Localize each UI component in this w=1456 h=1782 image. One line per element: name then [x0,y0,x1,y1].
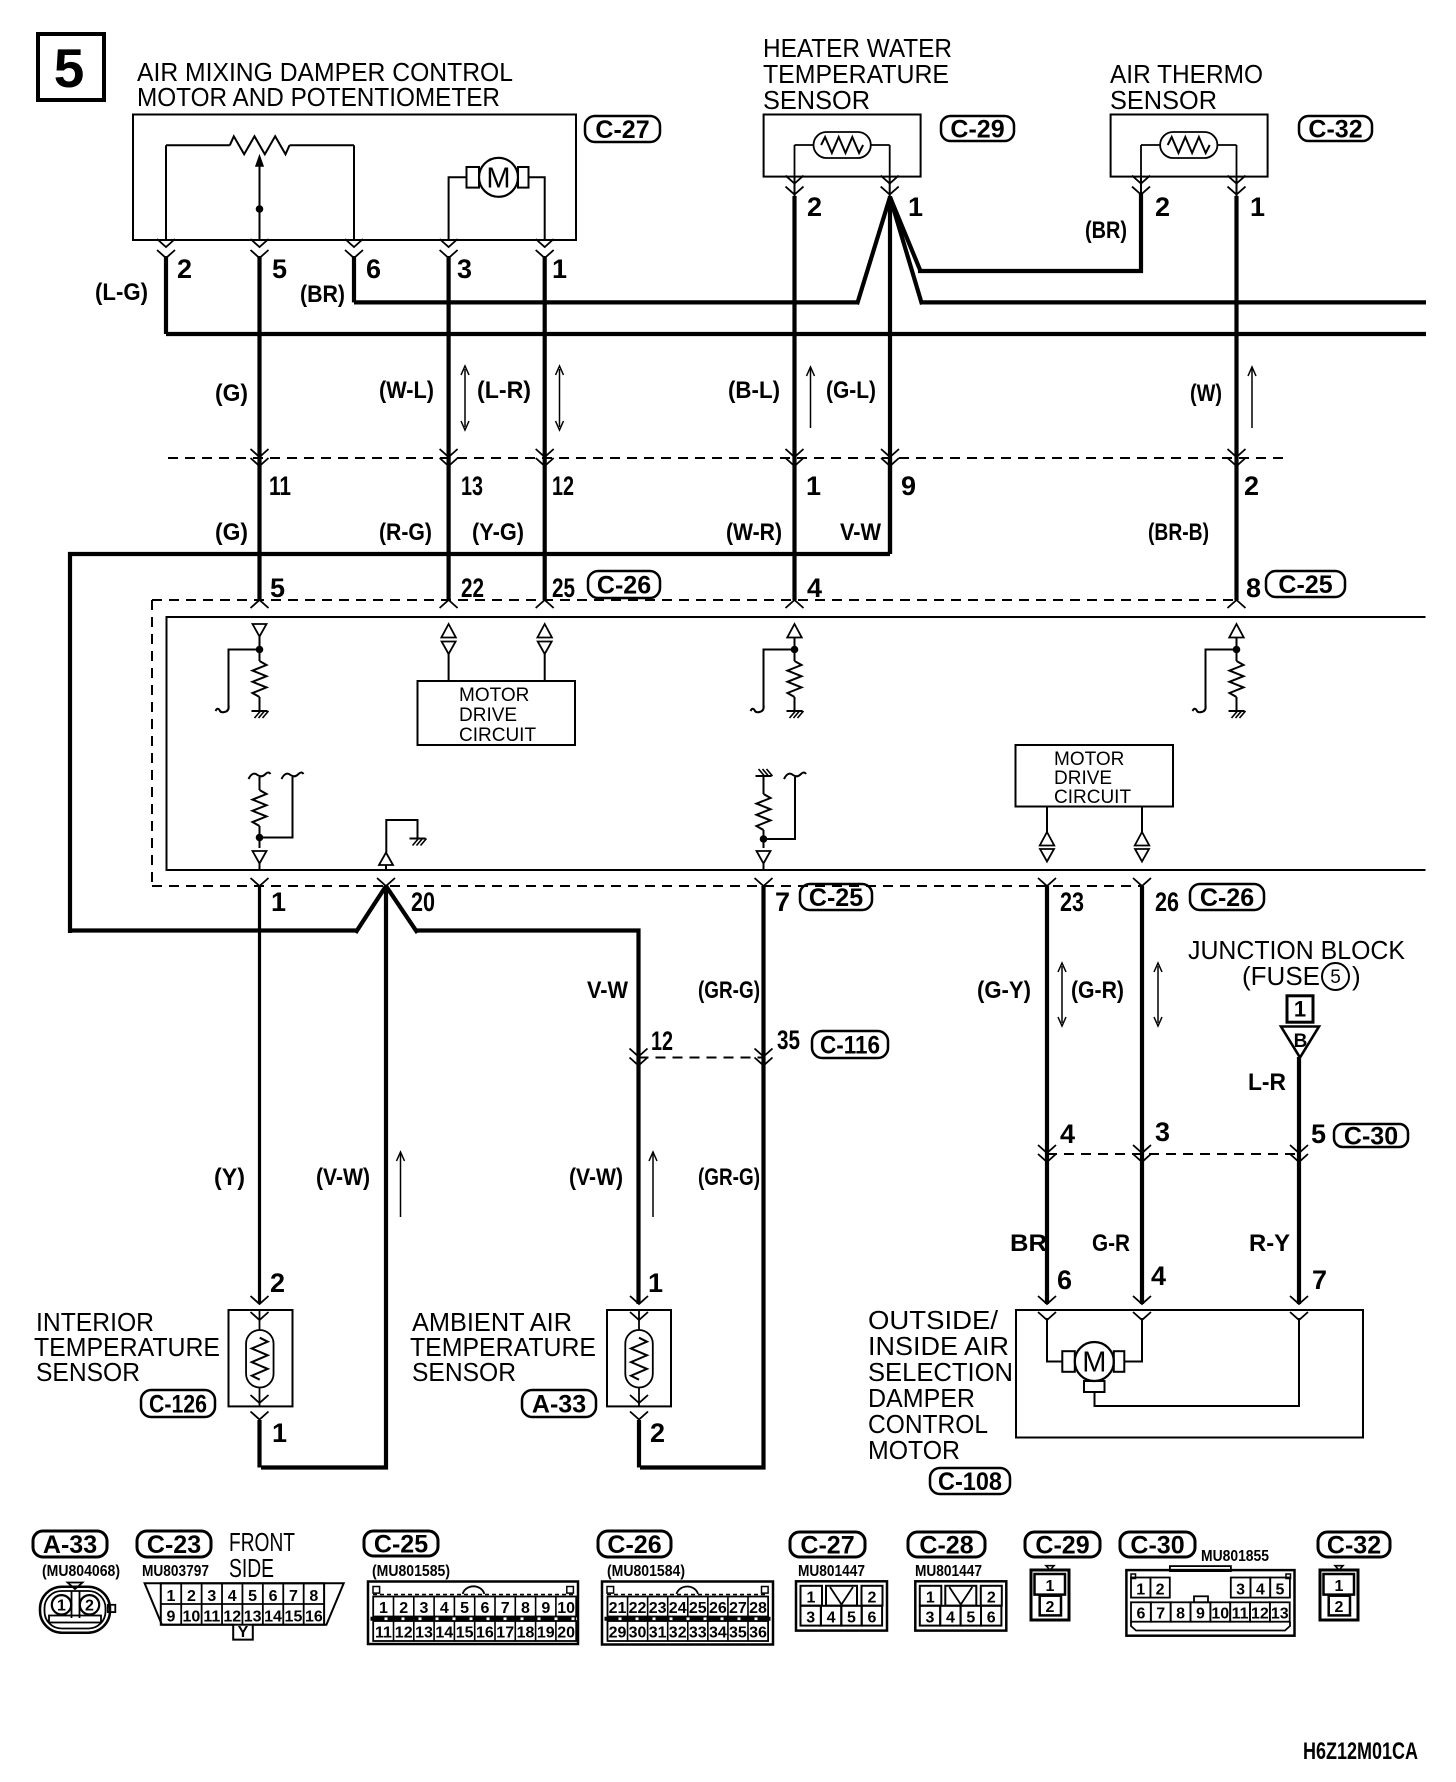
connector drawing C-32 [1335,1566,1343,1570]
svg-text:2: 2 [399,1600,408,1617]
ECU pin20 output triangle [379,853,393,866]
svg-text:(G): (G) [215,519,248,546]
signal arrow near W-L [464,369,466,427]
svg-text:7: 7 [289,1588,298,1605]
svg-text:3: 3 [420,1600,429,1617]
svg-text:CIRCUIT: CIRCUIT [1054,787,1131,808]
ECU pin1 output network hooks [249,773,271,780]
in-line pin 12 C-116 [630,1049,648,1057]
connector drawing C-25 [368,1582,578,1645]
wire damper motor pin7 lead [1095,1318,1300,1406]
connector label C-25 bottom row [364,1531,438,1556]
wire bus3 to left riser [70,554,890,933]
ECU pin25 triangles [537,624,552,638]
svg-text:4: 4 [946,1610,955,1627]
svg-text:(V-W): (V-W) [316,1164,370,1191]
svg-text:C-29: C-29 [1035,1532,1089,1560]
svg-text:MOTOR AND POTENTIOMETER: MOTOR AND POTENTIOMETER [137,82,500,112]
svg-text:31: 31 [649,1625,667,1642]
svg-text:22: 22 [629,1600,647,1617]
svg-text:7: 7 [1312,1265,1327,1295]
svg-text:20: 20 [557,1625,575,1642]
in-line pin 9 [881,449,899,457]
svg-text:1: 1 [648,1268,663,1298]
svg-text:13: 13 [461,471,483,501]
connector label C-25 bottom [800,884,872,910]
svg-text:1: 1 [552,254,567,284]
ECU pin22 triangles [441,624,456,638]
svg-text:1: 1 [908,192,923,222]
svg-text:(W-R): (W-R) [726,519,782,546]
component box heater water temperature sensor [764,115,921,177]
ECU pin23 triangles [1046,807,1048,833]
svg-text:8: 8 [521,1600,530,1617]
connector drawing C-26 [602,1582,773,1645]
wire diagonal bus1 up to heater pin 1 [857,197,890,304]
svg-text:22: 22 [461,573,484,603]
svg-text:26: 26 [709,1600,727,1617]
wire damper motor pin6 lead [1047,1318,1062,1362]
ECU pin5 pull resistor network [259,637,261,647]
svg-text:11: 11 [269,471,291,501]
svg-text:19: 19 [537,1625,555,1642]
svg-text:7: 7 [501,1600,510,1617]
ground ECU pin5 network [252,710,268,712]
signal arrow center V-W [400,1154,402,1217]
ECU dashed boundary bottom [152,885,1142,887]
connector label C-126 [141,1390,215,1417]
svg-text:6: 6 [1136,1606,1145,1623]
ECU terminal feathers top [251,600,269,608]
svg-text:4: 4 [228,1588,237,1605]
svg-text:(MU801585): (MU801585) [372,1563,450,1580]
connector label C-28 bottom row [908,1532,985,1557]
ambient sensor pin 2 feathers [630,1395,648,1403]
connector label C-27 bottom row [790,1532,865,1557]
svg-text:32: 32 [669,1625,687,1642]
in-line connector C-116 dashed line [639,1057,764,1059]
thermistor air thermo sensor [1160,132,1217,158]
pin 5 of C-27 [251,239,269,247]
motor M outside/inside damper [1075,1342,1114,1381]
svg-text:(BR-B): (BR-B) [1148,519,1209,546]
svg-text:2: 2 [1156,1582,1165,1599]
svg-text:(G): (G) [215,380,248,407]
connector drawing C-23 [145,1583,344,1639]
svg-text:2: 2 [177,254,192,284]
interior sensor pin 2 feathers [251,1296,269,1304]
svg-text:1: 1 [272,1418,287,1448]
svg-text:24: 24 [669,1600,687,1617]
svg-text:C-27: C-27 [800,1532,854,1560]
svg-text:5: 5 [966,1610,975,1627]
connector label C-26 top [588,571,660,598]
svg-text:SIDE: SIDE [229,1553,274,1583]
svg-text:(MU804068): (MU804068) [42,1563,120,1580]
svg-text:1: 1 [379,1600,388,1617]
wire pin5 G down to ECU [257,256,261,600]
connector drawing C-27 [796,1581,887,1630]
wire heater pin2 B-L down to ECU [792,196,796,600]
svg-text:5: 5 [1311,1119,1326,1149]
wire ECU pin23 G-Y down to damper motor [1045,886,1049,1304]
svg-text:(G-L): (G-L) [826,377,876,404]
svg-text:(GR-G): (GR-G) [698,977,760,1004]
svg-text:(R-G): (R-G) [379,519,432,546]
svg-text:23: 23 [1060,887,1084,917]
svg-text:2: 2 [1046,1599,1055,1616]
component box air thermo sensor [1111,115,1268,177]
svg-text:36: 36 [749,1625,767,1642]
svg-text:(MU801584): (MU801584) [607,1563,685,1580]
svg-text:C-32: C-32 [1308,116,1362,144]
signal arrow near G-L [810,369,812,428]
svg-text:C-26: C-26 [597,572,651,600]
svg-text:6: 6 [867,1610,876,1627]
connector label C-116 [812,1031,888,1058]
svg-text:17: 17 [496,1625,514,1642]
svg-text:14: 14 [264,1609,282,1626]
connector label C-23 [137,1531,211,1557]
svg-text:Y: Y [238,1624,249,1641]
in-line pin 35 C-116 [755,1049,773,1057]
pin 1 of C-32 [1236,177,1238,196]
pin 3 of C-27 [440,239,458,247]
connector drawing C-28 [915,1581,1006,1630]
wire center V-W down to interior pin1 elbow [261,886,386,1468]
fusible link box 1 [1287,996,1313,1022]
svg-text:1: 1 [1335,1578,1344,1595]
svg-text:4: 4 [1151,1261,1166,1291]
svg-text:MOTOR: MOTOR [868,1435,960,1465]
svg-text:1: 1 [926,1590,935,1607]
in-line pin 2 [1228,449,1246,457]
svg-text:MOTOR: MOTOR [459,685,529,706]
wire bus2 to page edge [166,332,1426,336]
ECU pin8 input triangle [1229,624,1244,638]
svg-text:V-W: V-W [840,519,881,546]
svg-text:SENSOR: SENSOR [36,1357,140,1387]
thermistor heater water temperature sensor [814,132,871,158]
svg-text:13: 13 [244,1609,262,1626]
wire diagonal heater pin 1 to BR branch [890,197,921,271]
wire bus1 right segment to page edge [920,300,1426,304]
svg-text:MU801447: MU801447 [798,1563,865,1580]
svg-text:34: 34 [709,1625,727,1642]
svg-text:(GR-G): (GR-G) [698,1164,760,1191]
connector label C-30 bottom row [1120,1532,1195,1557]
svg-text:6: 6 [269,1588,278,1605]
svg-text:35: 35 [729,1625,747,1642]
pin 2 of C-32 [1140,177,1142,196]
motor drive circuit box 1 [418,681,576,745]
svg-text:(L-G): (L-G) [95,279,148,306]
key tab C-30 [1194,1596,1208,1602]
svg-text:2: 2 [1244,471,1259,501]
svg-text:4: 4 [1256,1582,1265,1599]
interior sensor pin 1 feathers [251,1395,269,1403]
connector drawing C-30 [1170,1566,1231,1571]
svg-text:DRIVE: DRIVE [1054,768,1112,789]
component box outside/inside air selection damper control motor [1016,1310,1363,1438]
svg-text:29: 29 [609,1625,627,1642]
wire junction block L-R down [1297,1057,1301,1304]
svg-text:12: 12 [1251,1606,1269,1623]
svg-text:B: B [1294,1031,1308,1052]
wire interior pin1 riser [257,1420,261,1468]
svg-text:C-28: C-28 [919,1532,973,1560]
potentiometer R1 [230,136,290,154]
connector label C-25 top [1266,571,1345,597]
wire ambient pin2 riser [637,1420,641,1468]
svg-text:2: 2 [807,192,822,222]
svg-text:16: 16 [305,1609,323,1626]
in-line pin 3 C-30 [1133,1145,1151,1153]
svg-text:1: 1 [1250,192,1265,222]
svg-text:C-23: C-23 [147,1531,201,1559]
svg-text:H6Z12M01CA: H6Z12M01CA [1303,1738,1418,1765]
svg-text:1: 1 [271,887,286,917]
svg-text:C-116: C-116 [820,1032,880,1060]
svg-text:C-25: C-25 [374,1531,428,1559]
svg-text:12: 12 [552,471,574,501]
svg-text:5: 5 [460,1600,469,1617]
svg-text:9: 9 [901,471,916,501]
svg-text:M: M [1082,1347,1106,1379]
connector label C-29 [941,116,1014,141]
svg-text:9: 9 [167,1609,176,1626]
svg-text:5: 5 [270,573,285,603]
ground ECU pin20 [386,820,417,853]
svg-text:1: 1 [1136,1582,1145,1599]
pin 6 of C-27 [345,239,363,247]
svg-text:3: 3 [1236,1582,1245,1599]
svg-text:(V-W): (V-W) [569,1164,623,1191]
in-line pin 1 [786,449,804,457]
svg-text:11: 11 [203,1609,220,1626]
svg-text:10: 10 [1211,1606,1229,1623]
ambient sensor pin 1 feathers [630,1296,648,1304]
svg-text:3: 3 [1155,1117,1170,1147]
wire damper motor pin4 lead [1125,1318,1142,1362]
connector label C-32 bottom row [1318,1532,1390,1557]
svg-text:15: 15 [456,1625,474,1642]
ground ECU pin8 network [1229,710,1245,712]
svg-text:2: 2 [650,1418,665,1448]
svg-text:5: 5 [272,254,287,284]
svg-text:2: 2 [868,1590,877,1607]
svg-text:MOTOR: MOTOR [1054,749,1124,770]
wire BR branch to air thermo pin 2 [918,194,1141,271]
svg-text:(G-R): (G-R) [1071,977,1124,1004]
svg-text:V-W: V-W [587,977,628,1004]
svg-text:26: 26 [1155,887,1179,917]
fuse number circle 5 [1322,963,1349,990]
wire pin6 BR to bus1 [352,256,356,302]
svg-text:(W): (W) [1190,380,1222,407]
svg-text:MU801447: MU801447 [915,1563,982,1580]
svg-text:18: 18 [517,1625,535,1642]
connector label C-30 inline [1334,1124,1408,1147]
ECU pin5 input triangle [253,624,267,637]
svg-text:MU803797: MU803797 [142,1563,209,1580]
in-line pin 5 C-30 [1290,1145,1308,1153]
wire ECU pin26 G-R down to damper motor [1140,886,1144,1304]
svg-text:C-108: C-108 [938,1468,1002,1496]
in-line pin 11 [251,449,269,457]
svg-text:25: 25 [552,573,575,603]
wire bus1 left segment [354,300,857,304]
svg-text:C-30: C-30 [1344,1123,1398,1151]
svg-text:4: 4 [827,1610,836,1627]
svg-text:DRIVE: DRIVE [459,705,517,726]
wire pin1 L-R down to ECU [543,256,547,600]
wire bus y933 right to V-W drop [416,931,639,1305]
connector label A-33 bottom [33,1531,107,1557]
svg-text:2: 2 [1155,192,1170,222]
svg-text:A-33: A-33 [43,1531,97,1559]
component box interior temperature sensor [229,1310,293,1406]
connector label C-32 [1299,116,1372,141]
damper motor pin 4 feathers [1133,1296,1151,1304]
frame number box 5 [38,34,104,100]
ECU pin7 output triangle [757,851,771,864]
svg-text:BR: BR [1010,1230,1047,1257]
ECU dashed boundary left [151,600,153,886]
svg-text:7: 7 [775,887,790,917]
svg-text:(Y-G): (Y-G) [472,519,524,546]
svg-text:(L-R): (L-R) [477,377,531,404]
signal arrow near W [1251,369,1253,428]
svg-text:14: 14 [435,1625,453,1642]
svg-text:13: 13 [415,1625,433,1642]
pin 2 of C-29 [794,177,796,196]
ECU pin8 pull resistor network [1236,638,1238,647]
svg-text:8: 8 [1176,1606,1185,1623]
svg-text:3: 3 [457,254,472,284]
ECU pin7 output network [756,775,772,777]
svg-text:9: 9 [541,1600,550,1617]
pin 2 of C-27 [157,239,175,247]
svg-text:C-29: C-29 [950,116,1004,144]
pin 1 of C-27 [536,239,554,247]
svg-text:2: 2 [85,1598,94,1615]
svg-text:6: 6 [480,1600,489,1617]
svg-text:5: 5 [54,37,85,99]
svg-text:21: 21 [609,1600,627,1617]
svg-text:30: 30 [629,1625,647,1642]
connector label A-33 sensor [522,1390,596,1417]
wire pin20 V junction [356,886,387,933]
motor M in C-27 [479,158,518,197]
svg-text:12: 12 [651,1026,673,1056]
svg-text:10: 10 [557,1600,575,1617]
connector label C-29 bottom row [1025,1532,1100,1557]
thermistor interior temperature sensor [259,1310,261,1330]
damper motor pin 7 feathers [1290,1296,1308,1304]
svg-text:23: 23 [649,1600,667,1617]
connector drawing C-29 [1046,1566,1054,1570]
ECU pin4 pull resistor network [794,638,796,647]
svg-text:MU801855: MU801855 [1201,1548,1269,1565]
wire motor left lead to pin 3 [449,177,468,240]
component box ambient air temperature sensor [607,1310,671,1406]
wire diagonal heater pin 1 down to bus1 right [890,197,922,304]
svg-text:4: 4 [1060,1119,1075,1149]
svg-text:11: 11 [1232,1606,1249,1623]
connector label C-27 [585,116,660,142]
svg-text:6: 6 [1057,1265,1072,1295]
svg-text:C-25: C-25 [1278,571,1332,599]
svg-text:C-126: C-126 [149,1391,207,1419]
wire bus y933 left [70,928,357,932]
ground ECU pin4 network [787,710,803,712]
svg-text:35: 35 [777,1025,800,1055]
wire heater pin1 G-L down to bus3 [888,196,892,554]
svg-text:A-33: A-33 [532,1391,586,1419]
svg-text:2: 2 [270,1268,285,1298]
in-line pin 4 C-30 [1038,1145,1056,1153]
svg-text:5: 5 [248,1588,257,1605]
A/C control unit box [167,617,1426,870]
svg-text:12: 12 [395,1625,413,1642]
svg-text:33: 33 [689,1625,707,1642]
svg-text:1: 1 [57,1598,66,1615]
svg-text:(BR): (BR) [1085,217,1127,244]
svg-text:5: 5 [847,1610,856,1627]
svg-text:C-27: C-27 [595,116,649,144]
wire pin9 V-W riser to bus3 [888,458,892,554]
wire motor right lead to pin 1 [529,177,545,240]
svg-text:2: 2 [1335,1599,1344,1616]
svg-text:4: 4 [807,573,822,603]
svg-text:G-R: G-R [1092,1230,1130,1257]
svg-text:20: 20 [411,887,435,917]
junction block triangle B [1281,1027,1319,1058]
ECU pin26 triangles [1141,807,1143,833]
svg-text:27: 27 [729,1600,747,1617]
svg-text:15: 15 [285,1609,303,1626]
connector label C-26 bottom row [598,1531,671,1557]
svg-text:1: 1 [807,1590,816,1607]
svg-text:C-25: C-25 [809,884,863,912]
ECU pin4 input triangle [787,624,802,638]
svg-text:2: 2 [987,1590,996,1607]
svg-text:1: 1 [1046,1578,1055,1595]
svg-text:1: 1 [806,471,821,501]
svg-text:(W-L): (W-L) [379,377,434,404]
svg-text:12: 12 [223,1609,241,1626]
svg-text:C-26: C-26 [607,1531,661,1559]
svg-text:8: 8 [1246,573,1261,603]
svg-text:1: 1 [1294,997,1306,1022]
svg-text:C-32: C-32 [1327,1532,1381,1560]
svg-text:(Y): (Y) [214,1164,245,1191]
svg-text:4: 4 [440,1600,449,1617]
in-line connector dashed line [168,457,1283,459]
svg-text:(BR): (BR) [300,281,345,308]
component box air mixing damper control motor and potentiometer [133,115,576,241]
signal arrow near L-R [559,369,561,427]
wire pin3 W-L down to ECU [447,256,451,600]
signal arrow G-Y [1061,966,1063,1023]
svg-text:3: 3 [806,1610,815,1627]
svg-text:6: 6 [366,254,381,284]
svg-text:7: 7 [1156,1606,1165,1623]
signal arrow G-R [1157,966,1159,1023]
wire ECU pin7 GR-G down to ambient elbow [640,886,764,1468]
svg-text:3: 3 [207,1588,216,1605]
